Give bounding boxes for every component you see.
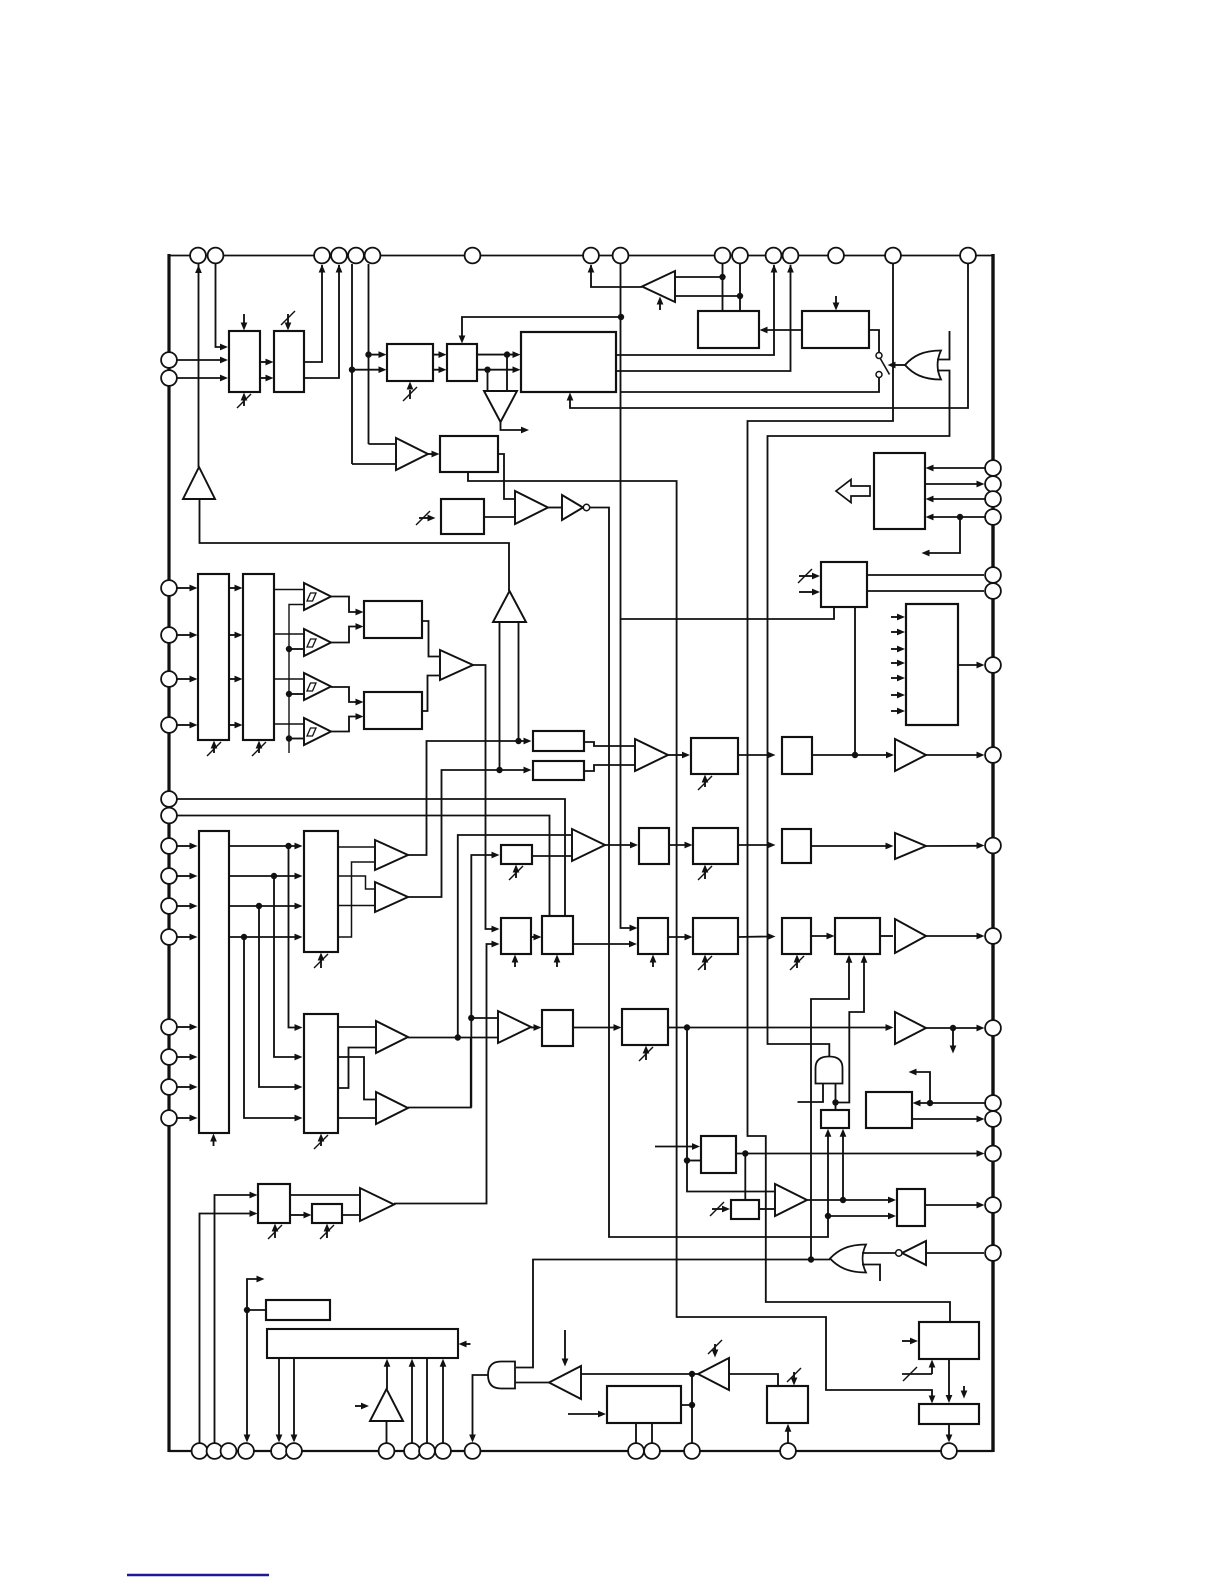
buffer B5 xyxy=(895,739,926,771)
wire node down to pin B4 xyxy=(246,1310,248,1437)
control arrow into B1 top xyxy=(243,314,245,325)
wire node up-left stub xyxy=(914,1072,930,1103)
inputs into RB3 xyxy=(891,616,899,618)
comparator C1 xyxy=(440,650,473,680)
schmitt T1 xyxy=(304,629,331,656)
wire A3 out to pin P5 xyxy=(591,265,642,287)
comparator Tb xyxy=(376,1092,408,1124)
wire node up to T2in upper xyxy=(458,835,571,1038)
wire node to pin B14 xyxy=(691,1405,693,1443)
wire C3 to R4 xyxy=(668,754,684,756)
wire TALL-L to TALL-RA 4 xyxy=(229,936,297,938)
wire RD to R7 xyxy=(738,936,770,939)
block RD xyxy=(693,918,738,954)
wire P2 to BIG a xyxy=(477,354,515,356)
wire OR1 out to switch xyxy=(893,364,905,366)
wire node to R14 lower input xyxy=(828,1215,890,1217)
bus ctl TRU-R bottom xyxy=(258,748,260,753)
wire pin B7a to A4 xyxy=(386,1421,388,1443)
block RE xyxy=(622,1009,668,1045)
register S3 xyxy=(501,845,532,864)
comparator C3 xyxy=(635,739,668,771)
wire A4 apex to WIDE xyxy=(386,1364,388,1389)
wire pin P6b to block PA top xyxy=(739,264,741,311)
block RB3 decoder xyxy=(906,604,958,725)
amplifier A3 (left) xyxy=(642,271,675,302)
wire pin L8 to RB top xyxy=(177,816,550,917)
wire RG to C4 lower xyxy=(759,1208,774,1210)
bus ctl RE bottom xyxy=(645,1053,647,1060)
wire A2 lower input xyxy=(352,463,395,465)
wire R8 ctl a from OR2 net xyxy=(811,960,849,1260)
ctl TALL-L bottom xyxy=(213,1141,215,1146)
wire pin B9 to WIDE xyxy=(426,1358,428,1443)
block RK xyxy=(919,1322,979,1359)
ctl RC bottom xyxy=(652,962,654,967)
block TRU-L xyxy=(198,574,229,740)
IC boundary box xyxy=(169,255,993,257)
block AGC xyxy=(440,436,498,472)
wire R4 to R5 xyxy=(738,754,770,756)
wire R6 to B6 xyxy=(811,845,888,847)
wire node up stub arrow xyxy=(247,1279,259,1310)
wire D1 out stub xyxy=(501,422,524,430)
wire RB3 to pin Q7 xyxy=(958,664,979,666)
block RJ xyxy=(607,1386,681,1423)
wire B2 out to pin X4 xyxy=(304,265,339,378)
bus edge left with node xyxy=(499,622,501,770)
wire TALL-RA to Tb lower xyxy=(338,1117,375,1119)
bus ctl into RK bottom xyxy=(902,1373,932,1375)
bus arrow symbol (up) xyxy=(493,591,526,622)
wire AND2 input left stub xyxy=(798,1084,824,1103)
wire T1 out to K6 xyxy=(331,627,358,643)
wire RB1 to pin Q2 xyxy=(925,483,979,485)
wire K6 out to C1 upper xyxy=(422,621,439,657)
register SR2 xyxy=(533,761,584,780)
wire pin L4 to TRU-L xyxy=(177,634,192,636)
block R14 xyxy=(897,1189,925,1226)
bus ctl R4 bottom xyxy=(704,782,706,787)
wire pin B2a up to BL1 upper xyxy=(215,1195,253,1443)
wire R14 to pin Q15 xyxy=(925,1204,979,1206)
wire pin L5 to TRU-L xyxy=(177,678,192,680)
wire B6 to pin Q9 xyxy=(926,845,979,847)
or-gate OR2 (left) xyxy=(830,1245,866,1273)
block RI xyxy=(866,1092,912,1128)
bus ctl R7 bottom xyxy=(796,962,798,968)
amplifier A1 (up) xyxy=(183,467,215,499)
wire TALL-L to TALL-RA 2 xyxy=(229,875,297,877)
buffer B7 xyxy=(895,919,926,953)
wire node down to RG top xyxy=(744,1154,746,1201)
wire RB2 to pin Q5 xyxy=(867,574,984,576)
wire TRI-BOT to RG1 xyxy=(531,1027,536,1029)
wire node net to SW xyxy=(247,1309,265,1311)
left border pins xyxy=(161,352,177,368)
block RB1 xyxy=(874,453,925,529)
wire pin X6 via node to P1 lower xyxy=(351,264,353,464)
wire RM to pin B16 xyxy=(948,1424,950,1437)
wire node to P2 top xyxy=(462,317,621,338)
wire T3 out to K7 xyxy=(331,717,358,732)
bus ctl TRU-L bottom xyxy=(213,748,215,753)
wire B1 to B2 b xyxy=(260,377,268,379)
wire R8 ctl b down to AND node xyxy=(836,960,865,1103)
wire pin Q12 to RI with node xyxy=(917,1102,985,1104)
wire SR2 to C3 lower xyxy=(584,765,634,771)
comparator LT1 xyxy=(360,1188,394,1221)
wire branch to R-ctl at y619 xyxy=(621,607,835,619)
wire T1cmp out up to SR1 xyxy=(408,741,526,855)
wire C1 out down to RA upper xyxy=(473,665,494,929)
block B1 xyxy=(229,331,260,392)
block B2 xyxy=(274,331,304,392)
wire INV1 out long net down xyxy=(590,508,828,1238)
wire nodes to comparator D1 xyxy=(506,355,508,391)
wire stub into A4 left xyxy=(355,1405,363,1407)
block R8 xyxy=(835,918,880,954)
wire RB out to RC xyxy=(573,943,631,945)
bottom border pins xyxy=(192,1443,208,1459)
block WIDE xyxy=(267,1329,458,1358)
wire P1 to P2 b xyxy=(433,369,441,371)
register SW xyxy=(266,1300,330,1320)
wire TALL-RA to Tb upper jog xyxy=(338,1057,375,1100)
wire RB2 to pin Q6 xyxy=(867,590,984,592)
bus ctl RBb bottom xyxy=(704,872,706,879)
block BL2 xyxy=(312,1204,342,1223)
block RG1 xyxy=(542,1010,573,1046)
wire node stub down xyxy=(952,1028,954,1048)
wire K7 out to C1 lower xyxy=(422,676,439,712)
wires pins to TALL-L lower xyxy=(177,1026,192,1028)
wire PB to PA xyxy=(765,329,802,331)
wire RF out to pin Q14 with node xyxy=(736,1153,979,1155)
ctl RA bottom xyxy=(514,962,516,967)
block K7 xyxy=(364,692,422,729)
block R6 xyxy=(782,829,811,863)
wire OR1 bottom input from AND1 output net xyxy=(768,371,950,1058)
wire pin IN1 to B1 xyxy=(177,359,222,361)
wire OR2 bottom input stub xyxy=(862,1265,880,1282)
block TRU-R xyxy=(243,574,274,740)
inverter INV2 xyxy=(902,1241,926,1265)
bus control into B1 bottom xyxy=(243,398,245,406)
top border pins xyxy=(190,248,206,264)
wire C4 out to R14 upper with node xyxy=(807,1199,890,1201)
bus control into P1 bottom xyxy=(409,390,411,399)
wire node to S6 top xyxy=(835,1103,837,1111)
wire A1 out to pin X1 xyxy=(198,264,200,467)
wire OR2 top input from INV2 xyxy=(862,1252,896,1254)
and-gate AND1 (left) xyxy=(488,1362,515,1389)
wires TRU-R to T0..T3 xyxy=(274,589,303,591)
wire R8 to B7 xyxy=(880,935,893,937)
ctl stub into RM top xyxy=(963,1386,965,1393)
wires pins to TALL-L upper xyxy=(177,845,192,847)
wire TALL-L to TALL-RA 3 xyxy=(229,905,297,907)
wire TALL-RA to Td lower xyxy=(338,905,374,907)
bus ctl BL1 bottom xyxy=(274,1231,276,1238)
block RG xyxy=(731,1200,759,1219)
wire T2 out to K7 xyxy=(331,687,358,702)
wire B8 to pin Q11 with node xyxy=(926,1027,979,1029)
wire stub into RK left xyxy=(902,1340,912,1342)
wire BL1 to LT1 upper xyxy=(290,1194,359,1196)
block RB2 xyxy=(821,562,867,607)
block BL1 xyxy=(258,1184,290,1223)
register RA xyxy=(501,918,531,954)
block TALL-L xyxy=(199,831,229,1133)
wires TRU-L to TRU-R xyxy=(229,587,237,589)
wire BIG out to pin P8 xyxy=(616,265,791,371)
wire node4 down to TALL-RB xyxy=(244,937,297,1118)
comparator C4 xyxy=(775,1184,807,1216)
reference line with nodes xyxy=(289,605,303,754)
wire RJ to pin B13 xyxy=(651,1423,653,1443)
wire node up to S6 bottom xyxy=(827,1134,829,1216)
wire BIG out to pin P7 xyxy=(616,265,774,355)
wire BL1 to BL2 xyxy=(290,1214,306,1216)
bus ctl into RG left xyxy=(712,1208,724,1210)
block R5 xyxy=(782,737,812,774)
bus ctl S3 bottom xyxy=(515,872,517,878)
wire pin L7 to RB top xyxy=(177,799,565,916)
wire T2cmp out up to SR2 xyxy=(408,770,526,897)
wire pin IN2 to B1 xyxy=(177,377,222,379)
wire TALL-RA to Ta lower jog xyxy=(338,1048,375,1089)
wire Ta out to TRI-BOT lower with node xyxy=(408,1037,497,1039)
wire pin P16 down to BIG bottom xyxy=(570,264,968,408)
inverter TL2 (left) xyxy=(698,1358,729,1390)
block BIG timing generator xyxy=(521,332,616,392)
wire pin X5 via node to P1 upper xyxy=(368,264,370,444)
wire RJ to pin B12 xyxy=(635,1423,637,1443)
wire B7 to pin Q10 xyxy=(926,935,979,937)
comparator Tc xyxy=(375,840,408,870)
wire B1 to B2 a xyxy=(260,361,268,363)
bus control into B2 top xyxy=(287,314,289,325)
block RBb xyxy=(693,828,738,864)
wire switch common down-left net xyxy=(621,378,880,393)
wire TALL-RA to Tc upper xyxy=(338,846,374,848)
comparator TRI-BOT xyxy=(498,1011,531,1043)
comparator Td xyxy=(375,882,408,912)
schmitt T2 xyxy=(304,673,331,700)
block RF xyxy=(701,1136,736,1173)
wire node3 down to TALL-RB xyxy=(259,906,297,1087)
wire PB out to switch top xyxy=(869,330,879,352)
wire RG1 to RE xyxy=(573,1027,616,1029)
and-gate AND2 (up) xyxy=(816,1057,843,1084)
footer rule (blue) xyxy=(127,1574,269,1577)
wire OR2 out net to AND1 xyxy=(516,1260,830,1368)
wire RI to pin Q13 xyxy=(912,1118,979,1120)
bus ctl RD bottom xyxy=(704,962,706,970)
block R7 xyxy=(782,918,811,954)
wire stub into WIDE right xyxy=(464,1343,471,1345)
wire pin Q16 to INV2 xyxy=(926,1252,984,1254)
wire OR1 top input stub xyxy=(937,331,950,360)
block RL xyxy=(767,1386,808,1423)
wire node1 down to TALL-RB xyxy=(289,846,298,1028)
wire AND2 input right xyxy=(835,1084,837,1103)
block S1 xyxy=(441,499,484,534)
inverter INV1 xyxy=(562,495,583,520)
wire pin X2 to B1 xyxy=(216,264,224,347)
block TALL-RB xyxy=(304,1014,338,1133)
bus edge right with node xyxy=(518,622,520,741)
block RBa xyxy=(639,828,669,864)
block RM xyxy=(919,1404,979,1424)
block TALL-RA xyxy=(304,831,338,952)
wire B5 to pin Q8 xyxy=(926,754,979,756)
wire TL1 out to AND1 lower xyxy=(515,1382,549,1384)
buffer B6 xyxy=(895,833,926,859)
wire pin Q4 to RB1 with node xyxy=(931,516,985,518)
wire AGC bottom tap long net to M3 xyxy=(468,472,932,1398)
wire T0 out to K6 xyxy=(331,597,358,613)
wire A3 lower input node xyxy=(675,295,740,297)
wire S3 to T2in lower xyxy=(532,855,571,857)
comparator D1 (down) xyxy=(484,391,517,422)
wire A1 input from bus arrow xyxy=(200,499,510,591)
wire A2 out to AGC xyxy=(428,453,433,455)
wire pin B15 to RL bottom xyxy=(787,1430,789,1443)
wire pin L6 to TRU-L xyxy=(177,724,192,726)
block K6 xyxy=(364,601,422,638)
wire TL2 input to RL top xyxy=(729,1374,778,1386)
wire node down to R12 and C4 upper xyxy=(687,1028,774,1192)
wire R7 to R8 xyxy=(811,935,829,937)
wire RBa to RBb xyxy=(669,844,687,846)
wire pin P6a to block PA top xyxy=(722,264,724,311)
register RB xyxy=(542,916,573,954)
wire AND1 out down to pin B11 xyxy=(473,1375,489,1437)
register SR1 xyxy=(533,731,584,751)
wire TALL-RA to Tc lower jog xyxy=(338,862,374,937)
mode arrow symbol (hollow left) xyxy=(836,480,870,503)
wire RK out to RM top xyxy=(948,1359,950,1397)
block P2 xyxy=(447,344,477,381)
wire pin P15 long net left-down xyxy=(748,264,951,1322)
wire pin L3 to TRU-L xyxy=(177,587,192,589)
wire WIDE to pin B5a xyxy=(278,1358,280,1437)
bus control into S1 left xyxy=(419,517,430,519)
wire node2 down to TALL-RB xyxy=(274,876,297,1057)
control arrow into PB top xyxy=(835,296,837,305)
wire Tb out up-join xyxy=(408,1038,471,1108)
wire C4-out node up to S6 bottom xyxy=(842,1134,844,1200)
comparator Ta xyxy=(376,1021,408,1053)
wire node down-left stub xyxy=(927,517,960,553)
wire RBb to R6 xyxy=(738,844,770,846)
wire riser to S3 and node to TRI-BOT upper xyxy=(471,855,494,1108)
right border pins xyxy=(985,460,1001,476)
wire RA to RB xyxy=(531,936,536,938)
or-gate OR1 (left) xyxy=(905,351,941,380)
wire stub into RF xyxy=(655,1146,694,1148)
switch SW1 xyxy=(876,353,882,359)
wire pin Q3 to RB1 xyxy=(931,498,985,500)
bus ctl into TL2 top xyxy=(714,1344,716,1352)
wire RB2 bottom to node xyxy=(854,607,856,755)
block PA xyxy=(698,311,759,348)
wire T2in out to RBa xyxy=(605,844,632,846)
ctl RB bottom xyxy=(556,962,558,967)
wire stub into RJ xyxy=(568,1413,600,1415)
register S6 xyxy=(821,1110,849,1128)
schmitt T0 xyxy=(304,583,331,610)
wire riser to RA lower from LT1 xyxy=(394,944,494,1204)
wire pin Q1 to RB1 xyxy=(931,467,985,469)
bus ctl BL2 bottom xyxy=(326,1231,328,1238)
wire pin B8a to WIDE xyxy=(411,1364,413,1443)
block PB xyxy=(802,311,869,348)
control into RB2 b xyxy=(799,591,814,593)
wire TALL-RA to Ta upper xyxy=(338,1026,375,1028)
wire A2 upper input xyxy=(369,443,396,445)
wire node down to RJ right xyxy=(681,1374,692,1405)
bus ctl TALL-RA bottom xyxy=(320,960,322,968)
wire WIDE to pin B6a xyxy=(293,1358,295,1437)
wire B2 out to pin X3 xyxy=(304,265,322,362)
wire SR1 to C3 upper xyxy=(584,742,634,746)
wire S1 out to C2 lower xyxy=(484,516,514,518)
ctl arrow into TL1 top xyxy=(564,1330,566,1361)
control arrow into A3 bottom xyxy=(659,302,661,310)
bus ctl into RL top xyxy=(793,1372,795,1380)
wire TL2 out to TL1 input net xyxy=(581,1373,698,1375)
wire BL2 to LT1 lower xyxy=(342,1214,359,1216)
block P1 xyxy=(387,344,433,381)
wire pin B1a up to BL1 lower xyxy=(200,1214,253,1444)
wire C2 to INV1 xyxy=(548,507,561,509)
wire P1 to P2 a xyxy=(433,354,441,356)
wire TALL-L to TALL-RA 1 xyxy=(229,845,297,847)
comparator T2in xyxy=(572,829,605,861)
wire pin B10 to WIDE xyxy=(442,1364,444,1443)
wire R5 to B5 with node xyxy=(812,754,888,756)
wire TALL-RA to Td upper jog xyxy=(338,876,374,889)
amplifier A4 (up) xyxy=(370,1389,403,1421)
bus ctl TALL-RB bottom xyxy=(320,1141,322,1146)
wire RC to RD xyxy=(668,936,687,938)
block R4 xyxy=(691,738,738,774)
wire RE out long to B8 with node xyxy=(668,1027,888,1029)
bus control into RB2 a xyxy=(799,575,814,577)
wire P2 to BIG b xyxy=(477,369,515,371)
block RC xyxy=(638,918,668,954)
amplifier A2 xyxy=(396,438,428,470)
wire A3 upper input node xyxy=(675,276,723,278)
schmitt T3 xyxy=(304,718,331,745)
wire AGC out to C2 upper xyxy=(498,454,514,499)
wire pin P9 long vertical net xyxy=(621,264,633,928)
inverter TL1 (left) xyxy=(549,1366,581,1399)
comparator C2 xyxy=(515,491,548,524)
buffer B8 xyxy=(895,1012,926,1044)
